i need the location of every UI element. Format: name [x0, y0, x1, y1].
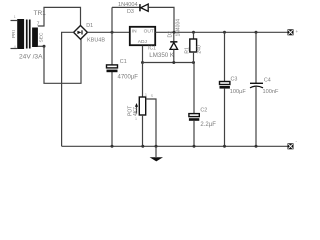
terminal output minus pad: [288, 143, 294, 149]
label R1 rotated: [185, 47, 191, 54]
capacitor C1 positive plate: [107, 65, 118, 68]
junction C3 top rail: [223, 31, 226, 34]
wire secondary top to top rail to bridge AC1: [38, 7, 81, 26]
svg-text:ADJ: ADJ: [138, 39, 148, 45]
capacitor C3 negative plate: [220, 86, 230, 89]
label POT rotated: [127, 106, 133, 116]
terminal output plus pad: [288, 29, 294, 35]
diode D3 cathode bar: [139, 4, 141, 11]
svg-text:+: +: [296, 29, 299, 34]
wire POT top: [142, 63, 144, 98]
label 4700uF: [118, 75, 139, 81]
svg-text:S: S: [151, 94, 154, 98]
wire wiper to ground rail: [146, 99, 156, 146]
wire D2 top stub: [173, 32, 175, 41]
wire bottom rail: [62, 145, 288, 147]
junction POT bottom rail: [141, 145, 144, 148]
svg-text:KBU4B: KBU4B: [87, 38, 105, 44]
junction ADJ node left: [141, 61, 144, 64]
label C3: [231, 76, 238, 82]
wire primary top stub: [11, 20, 18, 22]
regulator pin label IN: [132, 29, 137, 35]
label C2: [200, 108, 207, 114]
diode D2 cathode bar: [170, 41, 177, 43]
capacitor C4 curved plate: [250, 86, 263, 88]
wire bridge plus to regulator IN: [87, 31, 129, 33]
wire C4 top: [255, 32, 257, 83]
label plus terminal: [296, 29, 299, 34]
label 24V /3A: [19, 54, 43, 61]
label C4: [264, 77, 271, 83]
wire R1 bottom stub: [193, 52, 195, 63]
svg-text:2.2µF: 2.2µF: [200, 122, 216, 128]
label D3: [127, 9, 134, 15]
potentiometer wiper arrow: [135, 103, 138, 114]
label 1N4004 for D3: [118, 2, 138, 8]
svg-text:1N4004: 1N4004: [176, 19, 182, 37]
wire C3 bottom: [224, 89, 226, 147]
label 4K7 rotated: [133, 107, 139, 116]
label IC1: [148, 46, 156, 52]
label KBU4B: [87, 38, 105, 44]
wire C2 bottom: [193, 121, 195, 147]
svg-text:1N4004: 1N4004: [118, 2, 138, 8]
resistor R1 body: [190, 39, 197, 52]
wire C4 bottom: [255, 86, 257, 146]
junction DC+ node: [111, 31, 114, 34]
svg-text:240: 240: [196, 45, 202, 54]
diode D3 triangle: [141, 4, 148, 11]
ground stub: [155, 146, 157, 157]
wire ADJ pin down: [142, 46, 144, 63]
transformer TR1 core: [26, 20, 31, 49]
junction R1 top: [192, 31, 195, 34]
transformer TR1 primary winding bar: [17, 19, 24, 49]
bridge rectifier D1 inner diode: [77, 30, 82, 34]
label LM350 K: [149, 52, 175, 59]
junction OUT top rail drop: [173, 31, 176, 34]
junction C4 bottom rail: [255, 145, 258, 148]
svg-text:C1: C1: [120, 59, 127, 65]
label D2 rotated: [167, 31, 173, 38]
svg-text:1: 1: [14, 15, 16, 19]
regulator pin label ADJ: [138, 39, 148, 45]
svg-text:IN: IN: [132, 29, 137, 35]
svg-text:D3: D3: [127, 9, 134, 15]
bridge rectifier D1 diamond: [74, 26, 88, 40]
label D1: [86, 23, 93, 29]
wire C1 branch top: [111, 7, 113, 64]
pin 7 secondary top: [37, 22, 40, 28]
svg-text:D2: D2: [167, 31, 173, 38]
wire ADJ node horizontal: [143, 62, 194, 64]
svg-text:4K7: 4K7: [133, 107, 139, 116]
svg-text:SEC: SEC: [39, 32, 45, 42]
junction ground node: [155, 145, 158, 148]
label 1N4004 for D2 rotated: [176, 19, 182, 37]
wire D2 bottom stub: [173, 49, 175, 62]
wire R1 top stub: [193, 32, 195, 39]
capacitor C2 positive plate: [189, 114, 199, 117]
svg-text:100µF: 100µF: [230, 89, 247, 95]
svg-text:1: 1: [135, 117, 137, 121]
svg-text:100nF: 100nF: [263, 89, 279, 95]
wire secondary bottom loop to bridge AC2: [44, 39, 81, 83]
junction C3 bottom rail: [223, 145, 226, 148]
junction ADJ node R1: [192, 61, 195, 64]
junction secondary bottom: [43, 45, 46, 48]
transformer TR1 secondary winding bar: [32, 28, 38, 48]
diode D2 triangle: [170, 43, 178, 50]
regulator pin label OUT: [144, 29, 154, 35]
label minus terminal: [296, 139, 298, 144]
svg-text:24V /3A: 24V /3A: [19, 54, 43, 61]
svg-text:R1: R1: [185, 47, 191, 54]
svg-text:4700µF: 4700µF: [118, 75, 139, 81]
svg-text:4: 4: [14, 45, 16, 49]
pin 1 primary top: [14, 15, 16, 19]
svg-text:-: -: [296, 139, 298, 144]
regulator IC1 box: [130, 27, 155, 45]
transformer TR1 label: [34, 10, 47, 17]
svg-text:C3: C3: [231, 76, 238, 82]
capacitor C1 negative plate: [107, 70, 118, 73]
wire top rail D3 segment: [112, 7, 174, 32]
svg-text:C4: C4: [264, 77, 271, 83]
label SEC rotated: [39, 32, 45, 42]
svg-text:C2: C2: [200, 108, 207, 114]
pin 1 pot bottom: [135, 117, 137, 121]
label PRI rotated: [11, 30, 17, 38]
svg-text:LM350 K: LM350 K: [149, 52, 175, 59]
pin 4 primary bottom: [14, 45, 16, 49]
svg-text:PRI: PRI: [11, 30, 17, 38]
wire C2 top: [193, 63, 195, 114]
wire C3 top: [224, 32, 226, 81]
label C1: [120, 59, 127, 65]
svg-text:D1: D1: [86, 23, 93, 29]
capacitor C3 positive plate: [220, 82, 230, 85]
pin 3 pot top: [145, 93, 147, 97]
svg-text:OUT: OUT: [144, 29, 154, 35]
svg-text:IC1: IC1: [148, 46, 156, 52]
ground symbol: [150, 157, 163, 161]
junction ADJ node D2: [172, 61, 175, 64]
junction C1 bottom rail: [111, 145, 114, 148]
wire secondary bottom stub: [38, 45, 44, 47]
wire C1 branch bottom: [111, 72, 113, 146]
wire POT bottom: [142, 115, 144, 146]
capacitor C2 negative plate: [189, 118, 199, 121]
wire bridge minus to bottom rail: [62, 32, 74, 146]
label 240 rotated: [196, 45, 202, 54]
junction C2 bottom rail: [193, 145, 196, 148]
junction C4 top rail: [255, 31, 258, 34]
wire regulator OUT rail: [155, 31, 287, 33]
pin S pot wiper: [151, 94, 154, 98]
label 100nF: [263, 89, 279, 95]
wire primary bottom stub: [11, 48, 18, 50]
potentiometer POT body: [139, 97, 145, 115]
capacitor C4 top plate: [250, 83, 263, 84]
svg-text:3: 3: [145, 93, 147, 97]
label 100uF: [230, 89, 247, 95]
label 2.2uF: [200, 122, 216, 128]
